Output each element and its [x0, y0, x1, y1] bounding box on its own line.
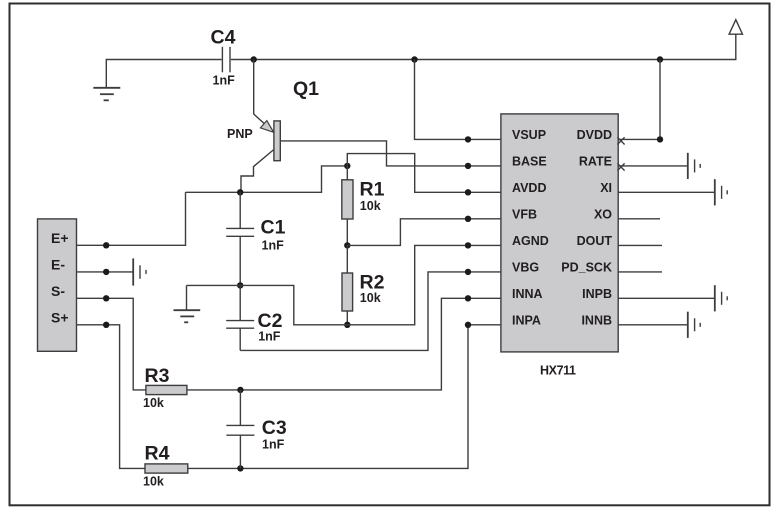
svg-text:PD_SCK: PD_SCK [561, 260, 612, 274]
svg-text:Q1: Q1 [293, 78, 319, 100]
svg-text:10k: 10k [143, 396, 164, 410]
no-connect X mark DVDD [617, 137, 624, 144]
svg-text:1nF: 1nF [213, 74, 236, 88]
no-connect X mark RATE [617, 163, 624, 170]
junction dot: AGND pin [465, 242, 471, 248]
junction dot: DVDD riser tap [657, 56, 663, 62]
junction dot: C1 top / emitter rail [237, 189, 243, 195]
resistor R1 [342, 166, 353, 246]
svg-text:INPB: INPB [582, 287, 612, 301]
wire VSUP supply rail (top) right segment [231, 34, 736, 60]
junction dot: INPA pin [465, 322, 471, 328]
svg-text:INPA: INPA [512, 313, 541, 327]
IC U1 HX711 body [501, 114, 618, 352]
svg-text:1nF: 1nF [262, 239, 285, 253]
junction dot: R2 bottom [344, 322, 350, 328]
wire XI stub [618, 191, 715, 193]
ground GND2 (mid-left) [174, 285, 201, 322]
transistor Q1 body bar [274, 121, 280, 161]
capacitor C4 [222, 47, 230, 73]
wire R1 top to AVDD pin [347, 154, 501, 193]
junction dot: R1/R2 mid [344, 242, 350, 248]
svg-text:AVDD: AVDD [512, 181, 547, 195]
svg-text:R2: R2 [360, 271, 385, 293]
wire S- to R3 [77, 298, 146, 390]
wire S+ to R4 [77, 325, 146, 469]
wire INPB stub [618, 297, 715, 299]
wire Q1 emitter lead [254, 60, 274, 133]
resistor R4 [145, 464, 188, 473]
ground GND4 (RATE, sideways) [688, 153, 700, 179]
wire E+ riser [77, 192, 186, 245]
wire XO stub (open) [618, 218, 660, 220]
junction dot: VFB pin [465, 216, 471, 222]
junction dot: AVDD pin [465, 189, 471, 195]
wire E- stub [77, 271, 134, 273]
svg-text:VBG: VBG [512, 260, 539, 274]
svg-text:VSUP: VSUP [512, 128, 546, 142]
svg-text:INNB: INNB [581, 313, 612, 327]
resistor R3 [146, 385, 187, 394]
junction dot: INNA pin [465, 295, 471, 301]
wire R3 to INNA pin [187, 298, 501, 390]
junction dot: C3 top [237, 387, 243, 393]
svg-text:XO: XO [594, 207, 612, 221]
wire DVDD to supply rail [618, 60, 660, 140]
junction dot: E+ stub [103, 242, 109, 248]
svg-text:HX711: HX711 [540, 364, 576, 378]
ground GND1 (top-left) [93, 88, 120, 101]
svg-text:10k: 10k [360, 199, 381, 213]
junction dot: S- stub [103, 295, 109, 301]
junction dot: VBG pin [465, 269, 471, 275]
ground GND6 (INPB, sideways) [715, 285, 727, 311]
svg-text:INNA: INNA [512, 287, 543, 301]
svg-text:C3: C3 [262, 417, 287, 439]
junction dot: AGND row [237, 282, 243, 288]
wire C2 bottom to VBG pin [240, 272, 501, 351]
svg-text:S-: S- [51, 283, 65, 299]
junction dot: C4 / Q1 emitter tap [251, 56, 257, 62]
junction dot: DVDD riser [657, 136, 663, 142]
svg-text:XI: XI [600, 181, 612, 195]
svg-text:R3: R3 [145, 365, 170, 387]
svg-text:R4: R4 [145, 443, 170, 465]
ground GND7 (INNB, sideways) [688, 312, 700, 338]
svg-text:AGND: AGND [512, 234, 549, 248]
ground GND5 (XI, sideways) [715, 179, 727, 205]
wire PD_SCK stub (open) [618, 271, 662, 273]
svg-text:BASE: BASE [512, 154, 547, 168]
svg-text:10k: 10k [360, 291, 381, 305]
wire AGND row [187, 245, 501, 324]
svg-text:E+: E+ [51, 230, 69, 246]
wire R4 to INPA pin [188, 325, 501, 469]
svg-text:PNP: PNP [227, 127, 253, 141]
svg-text:DVDD: DVDD [577, 128, 612, 142]
capacitor C3 [226, 390, 254, 469]
junction dot: VSUP riser tap [411, 56, 417, 62]
svg-text:RATE: RATE [579, 154, 612, 168]
wire RATE stub [618, 165, 688, 167]
svg-text:C4: C4 [211, 27, 236, 49]
wire Q1 base to BASE pin [280, 141, 501, 166]
resistor R2 [342, 245, 353, 324]
svg-text:S+: S+ [51, 309, 69, 325]
junction dot: S+ stub [103, 322, 109, 328]
svg-text:1nF: 1nF [262, 438, 285, 452]
svg-text:E-: E- [51, 257, 65, 273]
wire INNB stub [618, 324, 688, 326]
svg-text:R1: R1 [360, 178, 385, 200]
wire VSUP supply rail (top) left segment [106, 60, 221, 88]
wire AVDD rail (emitter row) [186, 166, 348, 192]
junction dot: R1 top [344, 163, 350, 169]
wire Q1 collector lead [241, 149, 274, 192]
power symbol VCC arrow (top-right) [729, 20, 742, 35]
svg-text:10k: 10k [143, 475, 164, 489]
junction dot: E- stub [103, 269, 109, 275]
ground GND3 (E-, sideways) [133, 258, 146, 285]
junction dot: VSUP pin [465, 136, 471, 142]
svg-text:C1: C1 [261, 217, 286, 239]
svg-text:1nF: 1nF [258, 330, 281, 344]
junction dot: BASE pin [465, 163, 471, 169]
capacitor C1 [226, 192, 254, 285]
wire VSUP riser to VSUP pin [415, 60, 501, 140]
svg-text:DOUT: DOUT [577, 234, 613, 248]
junction dot: C3 bottom [237, 465, 243, 471]
wire DOUT stub (open) [618, 244, 662, 246]
wire R1/R2 mid to VFB pin [347, 219, 501, 246]
svg-text:VFB: VFB [512, 207, 537, 221]
capacitor C2 [226, 285, 254, 350]
transistor Q1 emitter arrowhead [260, 121, 273, 133]
connector J1 (load cell E+/E-/S-/S+) [38, 219, 77, 351]
